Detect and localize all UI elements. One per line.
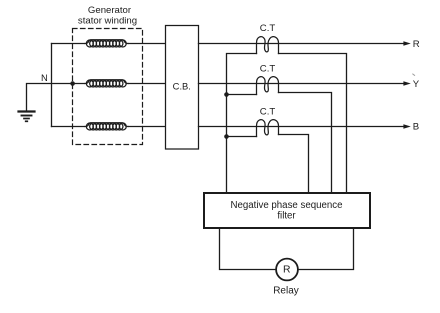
circuit breaker C.B. xyxy=(166,26,199,150)
svg-text:B: B xyxy=(413,122,419,133)
node CT2 bus junction xyxy=(224,92,229,97)
svg-text:C.B.: C.B. xyxy=(173,80,191,91)
wire filter to relay right xyxy=(298,228,354,270)
arrow R xyxy=(403,41,410,46)
wire CT3 secondary left to bus xyxy=(227,136,257,138)
svg-text:C.T: C.T xyxy=(260,23,276,34)
svg-text:stator winding: stator winding xyxy=(78,15,137,26)
current transformer CT3 xyxy=(257,120,279,137)
wire CT1 secondary right down xyxy=(279,54,347,194)
generator stator winding dashed box xyxy=(73,29,143,145)
current transformer CT2 xyxy=(257,77,279,95)
svg-text:filter: filter xyxy=(277,211,296,222)
wire top row left xyxy=(52,43,86,45)
svg-text:Generator: Generator xyxy=(88,5,132,16)
wire bottom row left xyxy=(52,126,86,128)
arrow Y xyxy=(403,81,410,86)
wire bottom row to CB xyxy=(128,126,166,128)
svg-text:Negative phase sequence: Negative phase sequence xyxy=(230,200,342,211)
wire N lead and ground drop xyxy=(27,84,86,112)
wire CT2 secondary right down xyxy=(279,93,332,194)
wire CT1 secondary left to bus xyxy=(227,54,257,194)
winding L2 (Y phase) xyxy=(85,80,128,87)
wire B line xyxy=(199,126,405,128)
arrow B xyxy=(403,124,410,129)
wire CT3 secondary right down xyxy=(279,135,309,194)
ground xyxy=(19,112,35,122)
wire middle row to CB xyxy=(128,83,166,85)
negative phase sequence filter box xyxy=(204,193,370,228)
svg-text:Relay: Relay xyxy=(273,286,299,297)
relay R xyxy=(276,259,298,281)
wire Y line xyxy=(199,83,405,85)
label Generator stator winding xyxy=(78,5,137,27)
wire CT2 secondary left to bus xyxy=(227,94,257,96)
wire filter to relay left xyxy=(220,228,277,270)
node N junction xyxy=(70,81,75,86)
svg-text:Y: Y xyxy=(413,79,420,90)
wire top row to CB xyxy=(128,43,166,45)
winding L1 (R phase) xyxy=(85,40,128,47)
svg-text:C.T: C.T xyxy=(260,106,276,117)
svg-text:C.T: C.T xyxy=(260,64,276,75)
svg-text:R: R xyxy=(413,39,420,50)
svg-text:N: N xyxy=(41,72,48,83)
stray mark above Y xyxy=(413,74,415,75)
node CT3 bus junction xyxy=(224,134,229,139)
winding L3 (B phase) xyxy=(85,123,128,130)
svg-text:R: R xyxy=(283,265,291,276)
wire R line xyxy=(199,43,405,45)
wire neutral bus vertical xyxy=(51,44,53,127)
current transformer CT1 xyxy=(257,37,279,54)
